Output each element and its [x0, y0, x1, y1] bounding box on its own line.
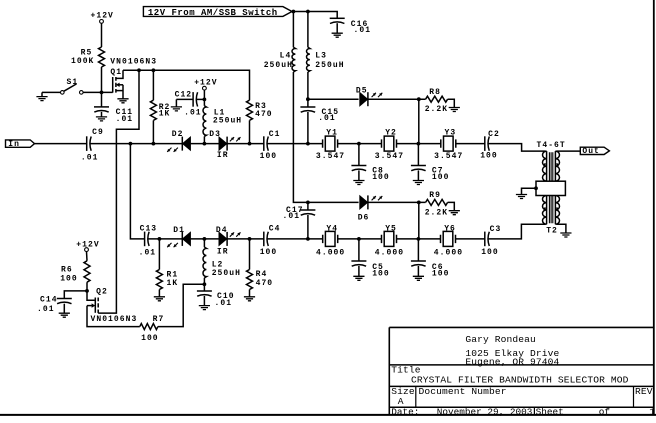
node rail R2 junction	[152, 68, 156, 72]
transformer T2 middle loop	[536, 181, 565, 195]
wire C14 to ground	[63, 304, 65, 314]
svg-text:D1: D1	[173, 226, 185, 235]
svg-text:100: 100	[60, 275, 78, 284]
wire D2 to D3	[191, 143, 220, 145]
capacitor C4	[260, 225, 281, 257]
svg-text:C2: C2	[488, 130, 500, 139]
wire Y5 to Y6	[397, 238, 441, 240]
node L1 chain junction	[203, 142, 207, 146]
crystal Y5	[375, 225, 404, 258]
node D6 row junction	[306, 201, 310, 205]
diode D3	[209, 130, 240, 160]
svg-text:250uH: 250uH	[213, 116, 242, 125]
svg-text:C4: C4	[269, 225, 281, 234]
port Out	[580, 147, 609, 156]
title block REV label	[635, 386, 653, 397]
wire upper chain to C13	[130, 144, 144, 239]
svg-text:of: of	[599, 407, 611, 418]
svg-text:November 29, 2003: November 29, 2003	[437, 407, 533, 418]
svg-text:VN0106N3: VN0106N3	[110, 57, 157, 66]
wire R7 to L2 node	[158, 284, 205, 326]
svg-text:100: 100	[432, 270, 450, 279]
ground C7	[413, 181, 424, 185]
title block Title label	[391, 365, 421, 376]
svg-text:C3: C3	[490, 225, 502, 234]
wire S1 to Q1 gate	[83, 91, 113, 93]
wire T2 to Out	[556, 150, 580, 152]
svg-text:100: 100	[481, 248, 499, 257]
wire C4 to Y4	[267, 238, 323, 240]
svg-text:Q1: Q1	[110, 68, 122, 77]
transformer T2 winding lower-right	[555, 196, 559, 225]
wire +12V to R6	[86, 252, 89, 261]
svg-text:1K: 1K	[159, 110, 171, 119]
node R1 junction	[158, 237, 162, 241]
crystal Y2	[375, 129, 404, 161]
wire Y2 to Y3	[397, 143, 441, 145]
ground C12	[171, 99, 182, 111]
transformer T2 winding lower-left	[542, 196, 546, 225]
node Q2 gate junction	[85, 289, 89, 293]
svg-text:.01: .01	[283, 212, 301, 221]
wire Y4 to Y5	[338, 238, 382, 240]
capacitor C5	[351, 239, 389, 279]
svg-text:L3: L3	[315, 52, 327, 61]
svg-text:IR: IR	[217, 248, 229, 257]
transistor Q2	[87, 288, 137, 324]
node Q1 gate junction	[100, 91, 104, 95]
node R8 junction	[417, 97, 421, 101]
svg-text:R7: R7	[153, 315, 165, 324]
wire D3 to C1	[227, 143, 264, 145]
wire R2 top	[152, 70, 154, 100]
svg-text:C1: C1	[269, 130, 281, 139]
svg-text:A: A	[398, 396, 404, 407]
svg-text:R9: R9	[429, 191, 441, 200]
ground C11	[96, 117, 107, 121]
inductor L3	[307, 12, 345, 73]
crystal Y1	[316, 129, 345, 161]
svg-text:.01: .01	[37, 305, 55, 314]
svg-text:Out: Out	[582, 147, 599, 156]
crystal Y3	[434, 129, 463, 161]
node D5 row junction	[306, 97, 310, 101]
svg-text:In: In	[8, 140, 20, 149]
svg-text:Eugene, OR 97404: Eugene, OR 97404	[465, 356, 559, 367]
svg-text:REV: REV	[635, 386, 653, 397]
svg-text:Q2: Q2	[96, 288, 108, 297]
ground R1	[154, 290, 165, 301]
port In	[6, 140, 35, 149]
wire C17 node to D6	[308, 201, 359, 203]
node C8 junction	[357, 142, 361, 146]
resistor R4	[247, 239, 274, 290]
title block frame	[389, 327, 654, 415]
svg-text:VN0106N3: VN0106N3	[91, 315, 138, 324]
svg-text:250uH: 250uH	[212, 269, 241, 278]
ground C5	[353, 276, 364, 280]
svg-text:.01: .01	[139, 249, 157, 258]
node C15 chain junction	[306, 142, 310, 146]
capacitor C15	[300, 99, 339, 143]
svg-text:R8: R8	[429, 88, 441, 97]
svg-text:3.547: 3.547	[316, 152, 345, 161]
transformer T2 core	[549, 152, 552, 223]
svg-text:C9: C9	[92, 128, 104, 137]
wire +12V to C12 node	[203, 90, 205, 99]
svg-text:D6: D6	[358, 213, 370, 222]
svg-text:IR: IR	[217, 151, 229, 160]
wire C16 to ground	[336, 23, 338, 33]
svg-text:.01: .01	[116, 115, 134, 124]
svg-text:.01: .01	[215, 299, 233, 308]
node C7 junction	[417, 142, 421, 146]
ground T2 tap	[516, 195, 527, 199]
svg-text:100: 100	[480, 152, 498, 161]
wire D4 to C4	[227, 238, 264, 240]
svg-text:100: 100	[260, 248, 278, 257]
wire In to C9	[35, 143, 87, 145]
svg-text:3.547: 3.547	[375, 152, 404, 161]
border bottom	[0, 414, 656, 416]
svg-text:.01: .01	[354, 26, 372, 35]
diode D2	[167, 130, 190, 152]
title block Document Number label	[419, 386, 507, 397]
capacitor C14	[37, 295, 72, 314]
wire R9 node to C6 node	[418, 202, 420, 239]
power +12V top	[91, 11, 114, 23]
svg-text:R6: R6	[61, 266, 73, 275]
title block address	[465, 348, 559, 367]
ground C14	[59, 313, 70, 317]
svg-text:4.000: 4.000	[375, 249, 404, 258]
svg-text:D5: D5	[356, 86, 368, 95]
svg-text:C13: C13	[140, 224, 158, 233]
node C17 chain junction	[306, 237, 310, 241]
wire +12V to R5	[101, 23, 103, 47]
wire banner to C16	[292, 12, 337, 19]
wire R3 bottom	[249, 120, 251, 143]
capacitor C9	[81, 128, 104, 162]
wire L3 to D5 row	[307, 72, 309, 99]
wire R6 to gate node	[86, 282, 88, 291]
wire T2 tap to ground	[522, 188, 537, 194]
capacitor C16	[330, 18, 371, 35]
svg-text:1K: 1K	[167, 279, 179, 288]
svg-text:Date:: Date:	[391, 407, 419, 418]
wire Y6 to C3	[456, 238, 485, 240]
wire D5 to R8	[368, 98, 426, 100]
title block Date	[391, 407, 533, 418]
svg-text:L4: L4	[280, 52, 292, 61]
capacitor C10	[197, 284, 235, 308]
svg-text:470: 470	[256, 279, 274, 288]
capacitor C2	[480, 130, 500, 161]
ground C8	[353, 181, 364, 185]
title block Size label	[391, 386, 415, 407]
capacitor C12	[175, 90, 205, 117]
ground C6	[413, 276, 424, 280]
node R9 junction	[417, 201, 421, 205]
node C5 junction	[357, 237, 361, 241]
svg-text:100: 100	[372, 270, 390, 279]
ground C16	[332, 33, 343, 37]
ground Q1 source	[117, 99, 128, 103]
wire C9 to D2	[90, 143, 183, 145]
svg-text:100K: 100K	[71, 57, 94, 66]
wire Q1 drain rail	[123, 70, 250, 100]
wire C13 to D1	[148, 238, 183, 240]
node L2-C10 junction	[203, 282, 207, 286]
wire R9 to ground	[448, 202, 455, 210]
svg-text:T4-6T: T4-6T	[537, 141, 566, 150]
node C6 junction	[417, 237, 421, 241]
capacitor C7	[411, 144, 450, 183]
wire C3 to T2	[488, 224, 546, 239]
svg-text:Gary Rondeau: Gary Rondeau	[465, 334, 536, 345]
svg-text:2.2K: 2.2K	[425, 208, 448, 217]
svg-text:Y2: Y2	[385, 129, 397, 138]
capacitor C13	[139, 224, 158, 257]
node T2 center tap	[534, 186, 538, 190]
crystal Y4	[316, 225, 345, 258]
svg-text:2.2K: 2.2K	[425, 105, 448, 114]
wire C2 to T2	[488, 144, 546, 152]
resistor R9	[425, 191, 448, 218]
inductor L2	[203, 239, 241, 284]
power +12V mid	[194, 79, 217, 91]
node R3 chain junction	[248, 142, 252, 146]
svg-text:250uH: 250uH	[264, 61, 293, 70]
power +12V lower	[76, 241, 99, 252]
svg-text:C12: C12	[175, 90, 193, 99]
wire Q2 source to R7	[87, 306, 140, 327]
diode D5	[356, 86, 382, 106]
wire R5 to gate node	[101, 67, 103, 92]
svg-text:1: 1	[649, 407, 655, 418]
ground R9	[449, 211, 460, 215]
ground C10	[199, 306, 210, 310]
capacitor C11	[94, 92, 133, 124]
resistor R7	[140, 315, 165, 343]
resistor R3	[247, 100, 273, 120]
wire Y1 to Y2	[338, 143, 382, 145]
ground S1	[36, 92, 47, 100]
svg-text:CRYSTAL FILTER BANDWIDTH SELEC: CRYSTAL FILTER BANDWIDTH SELECTOR MOD	[411, 374, 629, 385]
resistor R2	[150, 100, 170, 120]
node C12-L1 junction	[203, 98, 207, 102]
capacitor C3	[481, 225, 501, 257]
wire C1 to Y1	[267, 143, 323, 145]
svg-text:470: 470	[255, 110, 273, 119]
wire L4 to D6 row	[293, 72, 308, 202]
svg-text:Y5: Y5	[385, 225, 397, 234]
ground T2 bottom	[560, 233, 571, 237]
svg-text:100: 100	[141, 334, 159, 343]
wire R8 to ground	[448, 99, 455, 107]
svg-text:4.000: 4.000	[316, 249, 345, 258]
inductor L4	[264, 12, 296, 73]
svg-text:.01: .01	[318, 114, 336, 123]
port 12V From AM/SSB Switch	[143, 7, 292, 18]
node L2 junction	[203, 237, 207, 241]
svg-text:+12V: +12V	[91, 11, 114, 20]
node banner-L4 junction	[292, 10, 296, 14]
inductor L1	[203, 99, 242, 143]
svg-text:T2: T2	[546, 227, 558, 236]
svg-text:100: 100	[372, 173, 390, 182]
svg-text:Y4: Y4	[326, 225, 338, 234]
svg-text:Y6: Y6	[444, 225, 456, 234]
transistor Q1	[110, 57, 157, 98]
wire rail to Q2 drain	[98, 70, 139, 313]
resistor R8	[425, 88, 448, 114]
resistor R5	[71, 47, 105, 67]
svg-text:250uH: 250uH	[315, 61, 344, 70]
svg-text:3.547: 3.547	[434, 152, 463, 161]
transformer T2 winding upper-left	[542, 151, 546, 181]
diode D4	[216, 226, 241, 257]
title block title	[411, 374, 629, 385]
label T4-6T	[537, 141, 566, 150]
svg-text:S1: S1	[67, 78, 79, 87]
svg-text:C14: C14	[40, 295, 58, 304]
wire C15 node to D5	[308, 98, 359, 100]
wire Y3 to C2	[456, 143, 485, 145]
ground R8	[449, 108, 460, 112]
node banner-L3 junction	[306, 10, 310, 14]
resistor R6	[60, 261, 90, 284]
resistor R1	[156, 239, 178, 290]
svg-text:+12V: +12V	[194, 79, 217, 88]
title block Sheet	[536, 407, 656, 418]
svg-text:D4: D4	[216, 226, 228, 235]
node lower-branch junction	[129, 142, 133, 146]
node R4 junction	[248, 237, 252, 241]
wire R8 node to C7 node	[418, 99, 420, 143]
svg-text:100: 100	[260, 152, 278, 161]
svg-text:Document Number: Document Number	[419, 386, 507, 397]
capacitor C17	[283, 202, 316, 239]
wire R2 bottom	[152, 120, 154, 143]
wire gate node to C14	[64, 291, 87, 299]
svg-text:4.000: 4.000	[434, 249, 463, 258]
node rail branch	[137, 68, 141, 72]
svg-text:.01: .01	[81, 154, 99, 163]
node R2 chain junction	[152, 142, 156, 146]
transformer T2 winding upper-right	[555, 151, 559, 181]
capacitor C1	[260, 130, 281, 161]
border right	[653, 0, 655, 415]
title block name	[465, 334, 536, 345]
svg-text:Sheet: Sheet	[536, 407, 564, 418]
svg-text:100: 100	[432, 173, 450, 182]
switch S1	[42, 78, 83, 94]
label T2	[546, 227, 558, 236]
capacitor C6	[411, 239, 450, 279]
diode D1	[167, 226, 190, 247]
svg-text:12V From AM/SSB Switch: 12V From AM/SSB Switch	[148, 8, 278, 18]
svg-text:Y3: Y3	[445, 129, 457, 138]
svg-text:Y1: Y1	[326, 129, 338, 138]
capacitor C8	[351, 144, 389, 183]
svg-text:.01: .01	[184, 108, 202, 117]
crystal Y6	[434, 225, 463, 258]
svg-text:D3: D3	[209, 130, 221, 139]
diode D6	[358, 195, 383, 222]
ground R4	[244, 290, 255, 301]
wire D1 to D4	[191, 238, 220, 240]
wire D6 to R9	[368, 201, 426, 203]
wire C11 to ground	[101, 112, 103, 117]
svg-text:D2: D2	[172, 130, 184, 139]
wire T2 bottom right	[556, 224, 566, 233]
